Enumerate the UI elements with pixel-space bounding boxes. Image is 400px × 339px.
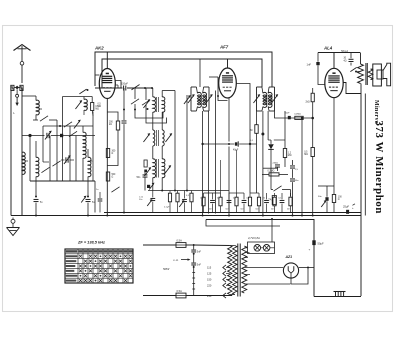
HT rail x314 — [313, 219, 315, 297]
resistor R6 0.2M — [274, 111, 292, 167]
IFT T1 — [188, 87, 213, 111]
label 0.5M — [98, 104, 102, 109]
mains cap C15 — [191, 253, 201, 296]
osc coil T0a-l — [153, 97, 156, 112]
svg-text:25μF: 25μF — [343, 204, 350, 208]
wire rail A — [95, 52, 272, 87]
transformer core — [366, 63, 367, 85]
svg-text:MΩ: MΩ — [98, 106, 102, 108]
AF7 top stub — [227, 59, 229, 68]
IFT T2 — [253, 87, 278, 111]
svg-text:Ω: Ω — [112, 177, 114, 179]
anode loop — [343, 83, 361, 94]
volume node — [301, 117, 314, 216]
switch S2c — [69, 131, 77, 136]
brand 373W — [373, 121, 385, 215]
cap blob C2 — [60, 134, 63, 137]
tube V2 AF7 — [219, 68, 237, 98]
wire y126 — [43, 125, 93, 127]
svg-text:Ω: Ω — [338, 199, 340, 201]
svg-text:125: 125 — [207, 272, 212, 276]
svg-text:240Ω: 240Ω — [273, 163, 279, 165]
svg-text:50nF: 50nF — [285, 112, 291, 114]
switch row 150pF — [95, 83, 153, 91]
T1 top feed — [199, 59, 201, 87]
cap mid C20 — [179, 191, 187, 213]
AZ1 cathode loop — [291, 267, 309, 285]
wire y135.5 — [58, 135, 95, 137]
long drop x361 — [360, 94, 362, 297]
wire antenna rail — [21, 89, 23, 216]
tube V1 AK2 — [99, 69, 115, 99]
svg-text:0,5A: 0,5A — [177, 289, 183, 293]
AL4 top rail — [318, 52, 360, 54]
label AZ1 — [285, 255, 293, 259]
secondary tap HT1 — [244, 262, 283, 268]
coil L5 — [88, 149, 91, 181]
bus lower — [206, 220, 314, 227]
bus upper — [104, 212, 361, 214]
osc coil T0c-r — [157, 159, 165, 178]
antenna series capacitor — [20, 62, 24, 84]
resistor R5 60k — [250, 111, 258, 193]
bypass cap C21 — [318, 196, 329, 207]
cap C12 1nF — [307, 53, 325, 85]
resistor R8 screen — [306, 88, 315, 148]
wire x187 drop — [184, 95, 191, 191]
switch S1b — [79, 89, 88, 94]
switch S2b — [64, 122, 72, 127]
wire riser x43 — [42, 126, 44, 136]
lamp box — [248, 242, 275, 254]
switch S4 — [131, 88, 163, 118]
svg-text:ZF = 138,5 kHz: ZF = 138,5 kHz — [77, 240, 105, 245]
osc coil wires — [153, 88, 162, 191]
brand Minerva — [373, 100, 379, 124]
AK2 top stub — [106, 52, 108, 69]
speaker LS — [371, 63, 391, 86]
svg-text:Ω: Ω — [112, 153, 114, 155]
coil L1 — [36, 96, 39, 120]
chassis ground — [334, 292, 346, 297]
AK2 cathode rail — [106, 99, 108, 216]
osc trimmer b — [143, 133, 172, 142]
svg-text:0,5A: 0,5A — [177, 238, 183, 242]
wire socket link — [22, 95, 36, 97]
label 50mA — [341, 49, 348, 53]
resistor R7 0.2M — [262, 171, 288, 177]
avc cap C22 — [285, 112, 291, 119]
output transformer secondary — [368, 69, 373, 80]
switch S3 — [52, 161, 60, 166]
band table grid — [65, 249, 133, 283]
resistor R1 0.5M — [91, 97, 100, 117]
T4 secondary — [242, 246, 247, 293]
osc coil T0b-l — [153, 130, 155, 146]
node det junction — [261, 133, 264, 216]
svg-text:AZ1: AZ1 — [285, 255, 293, 259]
svg-text:0,2MΩ: 0,2MΩ — [294, 114, 301, 116]
dial lamp La2 — [261, 245, 275, 252]
diode D1 — [268, 140, 274, 190]
junction diamond — [14, 86, 20, 90]
resistor R4 500 — [106, 172, 116, 181]
svg-text:0,1μF: 0,1μF — [164, 207, 170, 209]
AF7 grid loop — [209, 77, 228, 101]
tone switch S8 — [350, 67, 360, 72]
AK2 left exit — [95, 74, 99, 76]
resistor mid R13 — [176, 191, 179, 213]
switch S7 — [271, 186, 291, 196]
AK2 right exits — [115, 81, 121, 89]
svg-text:MΩ: MΩ — [304, 154, 308, 156]
AZ1 anode wire — [299, 267, 314, 269]
row junction dots — [123, 109, 125, 111]
cap C10 240 — [273, 163, 281, 171]
cap C8 50n — [137, 170, 148, 191]
svg-text:AL4: AL4 — [323, 46, 333, 51]
coil L3 — [36, 141, 39, 181]
cap pair C11 — [290, 160, 299, 216]
svg-text:AF7: AF7 — [219, 45, 229, 50]
svg-text:5nF: 5nF — [197, 250, 202, 253]
resistor mid R14 — [190, 191, 193, 213]
T2 bottom wires — [263, 111, 268, 140]
svg-text:+: + — [309, 248, 311, 252]
switch S6 — [111, 181, 119, 193]
mains cap C14 — [191, 244, 201, 255]
mid labels — [139, 195, 190, 209]
tube V3 AL4 — [325, 68, 343, 97]
wire left rail — [10, 89, 12, 216]
primary taps — [207, 265, 230, 298]
selector ticks — [192, 273, 195, 290]
osc coil T0c-l — [153, 159, 156, 178]
lamp feed from bus — [271, 219, 273, 242]
speaker return drop — [364, 94, 366, 216]
svg-text:4,7V/1,8A: 4,7V/1,8A — [248, 236, 260, 240]
cap C7 — [122, 88, 127, 213]
AL4 top stub — [333, 53, 335, 69]
resistor R9 0.5M — [304, 148, 314, 216]
band table header — [66, 250, 133, 252]
label AL4 — [323, 46, 333, 51]
cathode bracket — [318, 186, 334, 213]
svg-text:AK2: AK2 — [94, 46, 104, 51]
switch S2 — [41, 167, 49, 172]
decoupling row — [202, 193, 292, 213]
svg-text:0,2MΩ: 0,2MΩ — [268, 171, 275, 173]
svg-text:1nF: 1nF — [307, 63, 312, 67]
antenna A1 — [14, 45, 31, 62]
cap C17 1n — [96, 189, 102, 213]
svg-text:MΩ: MΩ — [95, 109, 99, 111]
tuning gang C1 — [22, 131, 58, 140]
resistor R11 100 — [332, 195, 342, 213]
secondary tap bottom — [244, 283, 290, 285]
bus main — [11, 215, 361, 217]
label 4.7V — [248, 236, 260, 240]
cap C9 100pF — [201, 141, 256, 151]
earth lead arrow — [13, 89, 19, 115]
AVC wire y118 — [275, 111, 313, 118]
AF7 cathode drop — [228, 98, 230, 216]
row labels — [200, 197, 291, 210]
svg-text:150: 150 — [207, 278, 212, 282]
fuse F1 0.5A — [143, 238, 194, 247]
sub-bus y181 — [30, 137, 95, 213]
svg-text:kΩ: kΩ — [109, 124, 112, 126]
bus dots — [35, 212, 314, 221]
label AK2 — [94, 46, 104, 51]
T1 bottom wires — [203, 111, 209, 216]
resistor R2 200k — [107, 112, 119, 166]
wire top loop — [63, 96, 93, 98]
avc resistor R15 — [294, 114, 303, 120]
cap C16 50uF — [309, 240, 325, 251]
avc link y168 — [263, 167, 278, 169]
tone cap C18 — [344, 53, 354, 66]
label 50W — [163, 267, 170, 271]
junction node A — [28, 134, 31, 137]
label LA — [174, 258, 191, 262]
resistor mid R12 — [168, 191, 171, 213]
osc trimmer c — [144, 160, 171, 176]
trimmer C3 — [74, 120, 81, 129]
label ZF — [77, 240, 105, 245]
svg-text:373 W Minerphon: 373 W Minerphon — [373, 121, 385, 215]
AL4 cathode — [333, 98, 335, 194]
osc coil T0a-r — [157, 97, 165, 112]
row top links — [204, 150, 260, 193]
blob cap mid — [147, 183, 154, 190]
fuse F2 0.5A — [143, 289, 232, 298]
wire drops — [43, 97, 93, 182]
link y190 — [148, 190, 229, 192]
svg-text:L.A.: L.A. — [174, 258, 179, 262]
bottom rail — [314, 296, 361, 298]
svg-text:MΩ: MΩ — [288, 155, 292, 157]
osc trimmer a — [143, 99, 150, 108]
trimmer C4 — [61, 155, 74, 164]
svg-text:240: 240 — [207, 294, 212, 298]
svg-text:150pF: 150pF — [121, 83, 129, 86]
svg-text:40pF: 40pF — [233, 150, 239, 152]
output transformer primary — [358, 64, 364, 84]
T4 core — [238, 244, 240, 297]
coil L4 — [83, 126, 86, 158]
bypass cap C5 — [34, 181, 44, 216]
wire rail B — [102, 59, 262, 88]
resistor R3 300 — [106, 145, 116, 158]
osc coil T0b-r — [157, 130, 165, 146]
rectifier V4 AZ1 — [283, 263, 298, 278]
primary top wire — [194, 244, 230, 247]
cap C13 25uF — [343, 204, 355, 214]
svg-text:50μF: 50μF — [318, 241, 325, 245]
svg-text:5nF: 5nF — [197, 263, 202, 266]
bypass cap C6 — [81, 181, 95, 216]
band table marks — [66, 255, 132, 282]
antenna socket D — [11, 85, 14, 90]
AF7 right wire — [237, 84, 251, 194]
label TA — [268, 196, 276, 205]
screen drop x215 — [215, 91, 217, 214]
switch S5 — [142, 88, 167, 123]
antenna coil L2 — [22, 152, 25, 174]
svg-text:220: 220 — [207, 284, 212, 288]
band switch S1 — [33, 116, 57, 121]
wire x175 drop — [162, 91, 175, 191]
dial lamp La1 — [254, 245, 261, 252]
transformer T4 primary — [228, 246, 237, 295]
svg-text:TA: TA — [268, 198, 271, 202]
svg-text:4Ω: 4Ω — [344, 60, 347, 62]
svg-text:115: 115 — [207, 266, 212, 270]
ground symbol — [7, 218, 20, 236]
label AF7 — [219, 45, 229, 50]
antenna socket C — [20, 85, 23, 90]
cap mid C19 — [147, 191, 155, 213]
svg-text:2kΩ: 2kΩ — [306, 102, 310, 104]
secondary tap heater — [244, 248, 250, 275]
label 60 — [26, 109, 94, 163]
primary top feed — [360, 53, 362, 65]
band coil L6 — [75, 97, 87, 116]
